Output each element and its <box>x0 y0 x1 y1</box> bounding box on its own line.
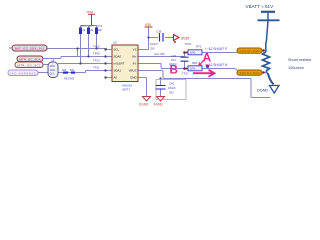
svg-text:I2C_HARNESS: I2C_HARNESS <box>11 71 36 75</box>
svg-text:100nF: 100nF <box>168 86 176 90</box>
svg-text:IN-: IN- <box>133 62 137 66</box>
svg-text:DGND: DGND <box>139 103 149 107</box>
svg-text:100nF: 100nF <box>150 42 158 46</box>
svg-text:10k: 10k <box>89 28 94 32</box>
svg-text:R75: R75 <box>81 24 86 28</box>
svg-text:MTR_I2C_SDA: MTR_I2C_SDA <box>20 57 41 61</box>
svg-text:R79: R79 <box>196 45 202 49</box>
svg-text:TP09: TP09 <box>93 52 100 56</box>
svg-text:TP11: TP11 <box>93 66 100 70</box>
svg-text:2R2: 2R2 <box>70 69 75 72</box>
svg-text:Shunt resistor: Shunt resistor <box>288 58 312 62</box>
svg-text:3V30: 3V30 <box>181 37 189 41</box>
svg-text:A: A <box>203 51 212 65</box>
svg-text:10k: 10k <box>98 28 103 32</box>
svg-text:R81 R82: R81 R82 <box>64 77 75 81</box>
svg-text:TP10: TP10 <box>93 45 100 49</box>
svg-text:TP17: TP17 <box>182 72 189 76</box>
svg-text:TP13: TP13 <box>93 59 100 63</box>
svg-text:1R0: 1R0 <box>190 67 196 71</box>
svg-text:SMT1: SMT1 <box>122 88 130 92</box>
svg-text:B: B <box>170 65 178 77</box>
svg-text:CLK: CLK <box>50 73 55 76</box>
svg-text:100uohm: 100uohm <box>288 66 304 70</box>
svg-text:GND: GND <box>130 76 136 80</box>
svg-text:1R0: 1R0 <box>190 51 196 55</box>
svg-text:nALERT: nALERT <box>114 62 125 66</box>
svg-text:C40: C40 <box>169 82 175 86</box>
svg-text:10k: 10k <box>81 28 86 32</box>
svg-text:SHUNT-PAD: SHUNT-PAD <box>240 71 260 75</box>
svg-text:25V: 25V <box>150 47 155 51</box>
svg-text:25V: 25V <box>169 91 174 95</box>
svg-text:UR: UR <box>51 60 55 63</box>
svg-text:2R2: 2R2 <box>62 69 67 72</box>
svg-text:R80: R80 <box>192 61 198 65</box>
svg-text:R76: R76 <box>98 24 103 28</box>
svg-text:TP16: TP16 <box>185 42 192 46</box>
svg-text:U5: U5 <box>113 41 117 45</box>
svg-text:IN+: IN+ <box>132 55 137 59</box>
svg-text:VBUS: VBUS <box>129 69 137 73</box>
svg-text:A0: A0 <box>114 76 118 80</box>
svg-text:SHUNT+PAD: SHUNT+PAD <box>240 49 260 53</box>
svg-text:VS: VS <box>133 48 137 52</box>
svg-text:1490: 1490 <box>50 65 56 68</box>
svg-text:VDD: VDD <box>87 10 94 14</box>
svg-text:VBATT ≈ 51V: VBATT ≈ 51V <box>246 4 275 9</box>
svg-text:AGND: AGND <box>154 103 164 107</box>
svg-text:(2x4 10P): (2x4 10P) <box>154 53 165 56</box>
svg-text:149G: 149G <box>50 69 56 72</box>
svg-text:BAT_I2C_SDA_3V3: BAT_I2C_SDA_3V3 <box>15 47 45 51</box>
svg-text:SDA0: SDA0 <box>114 55 122 59</box>
svg-text:C38: C38 <box>156 30 162 34</box>
svg-text:DGND: DGND <box>257 89 268 93</box>
svg-text:MTR_I2C_SCL: MTR_I2C_SCL <box>18 63 42 67</box>
svg-text:SDA1: SDA1 <box>114 69 122 73</box>
svg-text:SCL: SCL <box>114 48 120 52</box>
svg-text:V30: V30 <box>145 23 151 27</box>
